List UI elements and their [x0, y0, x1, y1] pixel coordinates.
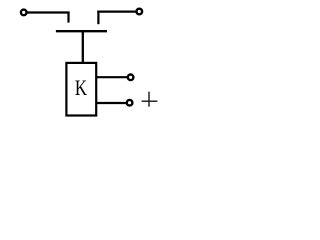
wire	[97, 11, 99, 25]
armature contact bar	[56, 30, 107, 32]
wire (armature link)	[82, 31, 84, 63]
wire	[96, 76, 128, 78]
terminal T4 (coil lower right open circle)	[127, 100, 133, 106]
terminal T2 (top-right open circle)	[137, 9, 143, 15]
wire	[97, 11, 136, 13]
relay coil K (box)	[66, 63, 96, 116]
svg-text:K: K	[75, 77, 87, 101]
terminal T1 (top-left open circle)	[21, 10, 27, 16]
wire	[27, 11, 70, 13]
wire	[67, 12, 69, 23]
plus polarity mark	[142, 92, 158, 107]
terminal T3 (coil upper right open circle)	[128, 75, 134, 81]
wire	[96, 102, 126, 104]
